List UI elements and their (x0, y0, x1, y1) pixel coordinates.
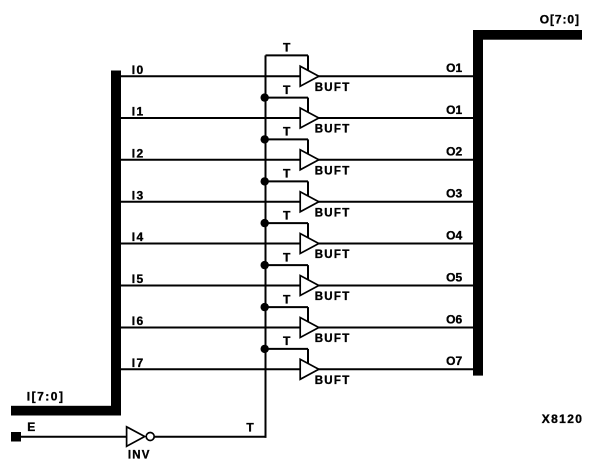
svg-text:T: T (246, 420, 254, 434)
svg-text:BUFT: BUFT (315, 165, 351, 177)
svg-text:O[7:0]: O[7:0] (540, 12, 580, 26)
svg-text:BUFT: BUFT (315, 333, 351, 345)
svg-text:I3: I3 (132, 188, 145, 202)
svg-text:I7: I7 (132, 356, 145, 370)
svg-text:T: T (283, 250, 291, 264)
svg-text:O7: O7 (446, 354, 462, 368)
svg-text:O2: O2 (446, 145, 462, 159)
svg-text:BUFT: BUFT (315, 249, 351, 261)
svg-text:T: T (283, 125, 291, 139)
svg-text:O4: O4 (446, 228, 462, 242)
svg-text:BUFT: BUFT (315, 82, 351, 94)
svg-text:I6: I6 (132, 314, 145, 328)
svg-text:I[7:0]: I[7:0] (27, 389, 65, 403)
svg-text:T: T (283, 208, 291, 222)
svg-text:BUFT: BUFT (315, 291, 351, 303)
svg-text:O5: O5 (446, 270, 462, 284)
svg-text:T: T (283, 292, 291, 306)
svg-text:T: T (283, 167, 291, 181)
svg-text:T: T (283, 41, 291, 55)
svg-text:T: T (283, 83, 291, 97)
svg-text:BUFT: BUFT (315, 375, 351, 387)
svg-text:O6: O6 (446, 312, 462, 326)
svg-text:I2: I2 (132, 146, 145, 160)
svg-text:X8120: X8120 (542, 412, 583, 426)
svg-text:BUFT: BUFT (315, 207, 351, 219)
svg-text:O1: O1 (446, 61, 462, 75)
svg-text:I5: I5 (132, 272, 145, 286)
svg-text:BUFT: BUFT (315, 124, 351, 136)
svg-text:I1: I1 (132, 105, 145, 119)
svg-text:INV: INV (128, 450, 151, 462)
svg-text:O3: O3 (446, 187, 462, 201)
svg-text:E: E (27, 420, 35, 434)
svg-text:O1: O1 (446, 103, 462, 117)
svg-text:T: T (283, 334, 291, 348)
svg-text:I0: I0 (132, 63, 145, 77)
svg-text:I4: I4 (132, 230, 145, 244)
